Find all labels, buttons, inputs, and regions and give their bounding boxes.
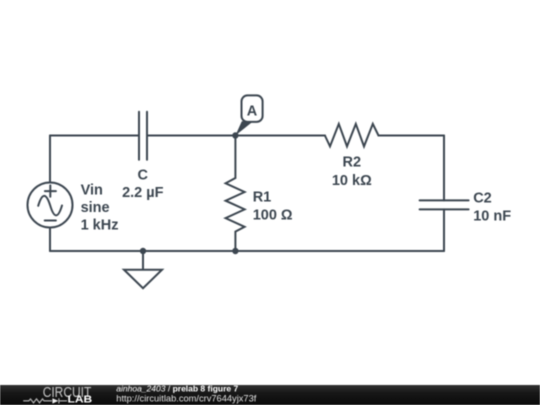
svg-text:10 kΩ: 10 kΩ [332,173,372,189]
wire left vertical upper [49,136,51,183]
wire right vertical lower [443,209,445,251]
svg-text:http://circuitlab.com/crv7644y: http://circuitlab.com/crv7644yjx73f [116,394,256,404]
svg-text:2.2 µF: 2.2 µF [122,185,164,201]
svg-text:C2: C2 [473,191,492,207]
wire left vertical lower [49,228,51,252]
resistor R2 [325,124,379,146]
svg-text:100 Ω: 100 Ω [253,207,293,223]
node A pointer [235,121,253,135]
voltage source V1 plus sign [45,185,56,196]
svg-text:R1: R1 [253,190,272,206]
svg-text:Vin: Vin [81,182,103,198]
logo diode triangle [52,398,58,403]
voltage source V1 circle [28,183,73,228]
wire right vertical upper [443,136,445,201]
capacitor C2 top plate [420,199,469,201]
wire top-left segment [50,135,139,137]
junction dot node A [232,132,238,138]
ground stub [142,251,144,270]
svg-text:ainhoa_2403 / prelab 8 figure: ainhoa_2403 / prelab 8 figure 7 [116,383,238,393]
junction dot R1 bottom [232,248,238,254]
wire bottom [50,250,444,252]
junction dot ground [140,248,146,254]
svg-text:1 kHz: 1 kHz [81,218,119,234]
capacitor C left plate [138,112,140,160]
capacitor C2 bottom plate [420,208,469,210]
svg-text:C: C [138,167,149,183]
voltage source V1 minus sign [45,220,56,222]
svg-text:sine: sine [81,200,110,216]
capacitor C right plate [146,112,148,160]
svg-text:A: A [247,103,258,119]
svg-text:10 nF: 10 nF [473,208,511,224]
ground triangle [124,270,162,289]
node A box [242,95,263,122]
svg-text:LAB: LAB [68,395,93,405]
resistor R1 [226,136,245,252]
logo wire and resistor glyph [23,398,67,403]
wire top-middle segment [147,135,325,137]
wire top-right segment [379,135,445,137]
voltage source V1 sine wave [38,196,62,216]
svg-text:R2: R2 [343,155,362,171]
